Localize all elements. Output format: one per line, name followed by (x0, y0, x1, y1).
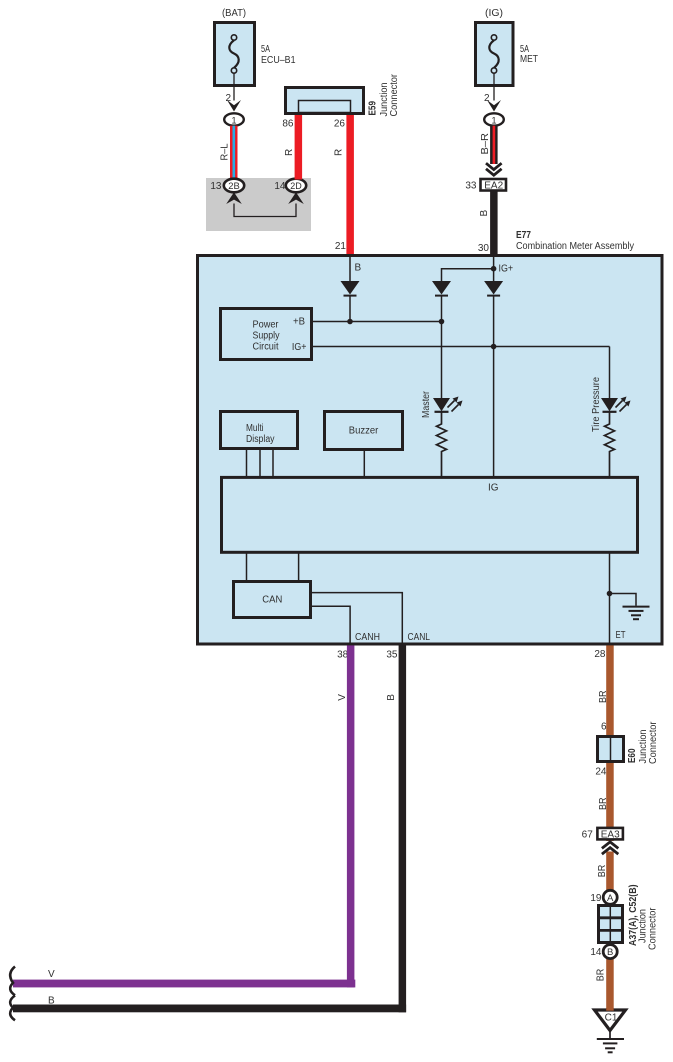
wire V (CANH, purple) (13, 645, 355, 987)
svg-text:CANH: CANH (355, 632, 380, 643)
svg-text:BR: BR (598, 798, 609, 811)
svg-text:CAN: CAN (262, 595, 282, 606)
svg-text:1: 1 (231, 115, 236, 125)
svg-text:+B: +B (293, 317, 305, 328)
svg-text:Combination Meter Assembly: Combination Meter Assembly (516, 241, 634, 252)
svg-text:E60: E60 (627, 748, 638, 763)
label E77 Combination Meter Assembly (516, 230, 634, 252)
diode D1 (B line) (341, 281, 360, 322)
svg-text:BR: BR (598, 691, 609, 704)
svg-text:CANL: CANL (408, 632, 431, 643)
svg-text:B: B (607, 947, 613, 958)
CAN block (234, 582, 311, 618)
connector 2B pin 13 (210, 179, 244, 193)
svg-text:Supply: Supply (253, 331, 280, 342)
ground symbol (597, 1031, 624, 1053)
svg-text:B: B (479, 210, 490, 217)
svg-text:V: V (48, 969, 55, 980)
svg-text:(IG): (IG) (485, 7, 503, 19)
multi display unit (221, 412, 298, 449)
connector 1 (BAT) (224, 113, 244, 125)
wire IG+ to power supply circuit (313, 344, 610, 350)
wire break symbol (V) (10, 967, 15, 996)
svg-text:Connector: Connector (648, 907, 659, 950)
wire CAN to CANH pin 38 (312, 606, 350, 644)
svg-text:14: 14 (274, 181, 286, 192)
svg-text:BR: BR (597, 865, 608, 878)
junction connector E59 (286, 88, 364, 114)
svg-text:E77: E77 (516, 230, 531, 241)
shield gray box (instrument panel wire) (206, 178, 311, 231)
wire CAN to CANL pin 35 (312, 593, 402, 644)
svg-text:2D: 2D (290, 181, 302, 191)
svg-text:C1: C1 (605, 1012, 618, 1023)
junction connector E60 (598, 737, 624, 762)
svg-text:V: V (337, 694, 348, 701)
svg-text:R–L: R–L (220, 143, 231, 160)
label E59 Junction Connector (368, 73, 401, 116)
wire from fuse to connector 1, pin 2 (484, 73, 501, 111)
node IG+ inside meter (491, 257, 513, 282)
svg-text:24: 24 (595, 767, 607, 778)
svg-text:Master: Master (421, 390, 432, 418)
double chevron into EA2 (485, 163, 504, 177)
wire from fuse to connector 1, pin 2 (225, 73, 241, 111)
wire break symbol (B) (10, 996, 15, 1021)
svg-text:IG+: IG+ (292, 342, 307, 353)
power supply circuit U1 (221, 309, 312, 360)
buzzer unit (325, 412, 403, 450)
svg-text:Buzzer: Buzzer (349, 426, 379, 437)
connector EA3 pin 67 (582, 828, 623, 841)
svg-text:67: 67 (582, 830, 594, 841)
resistor R1 (Master) (437, 412, 447, 476)
svg-text:EA2: EA2 (484, 180, 503, 191)
LED Master (421, 390, 462, 418)
wire B-R (black/red) (480, 126, 498, 166)
svg-text:E59: E59 (368, 101, 379, 116)
svg-text:6: 6 (601, 722, 607, 733)
svg-text:Multi: Multi (246, 423, 264, 434)
svg-text:30: 30 (478, 243, 490, 254)
internal ground (607, 591, 650, 620)
arrow up to 2B (226, 192, 242, 204)
diode D3 (484, 281, 503, 476)
svg-text:ET: ET (616, 630, 626, 641)
svg-text:28: 28 (594, 649, 606, 660)
svg-text:Connector: Connector (389, 73, 400, 116)
fuse 5A ECU-B1 (BAT) (215, 7, 296, 86)
ground point C1 (595, 1008, 626, 1031)
svg-text:33: 33 (465, 181, 477, 192)
svg-text:IG: IG (488, 483, 499, 494)
wire B from EA2 to pin 30 (478, 191, 498, 255)
label E60 Junction Connector (627, 721, 659, 764)
svg-text:R: R (334, 149, 345, 156)
svg-text:14: 14 (590, 947, 602, 958)
svg-text:ECU–B1: ECU–B1 (261, 55, 296, 66)
svg-text:B: B (48, 995, 55, 1006)
connector A pin 19 (590, 890, 617, 904)
combination meter assembly E77 box (198, 256, 663, 645)
wire +B (313, 319, 444, 325)
label A37(A), C52(B) Junction Connector (628, 885, 659, 951)
svg-text:A: A (607, 893, 614, 904)
svg-text:35: 35 (386, 650, 398, 661)
svg-text:21: 21 (335, 241, 347, 252)
svg-text:86: 86 (282, 119, 294, 130)
svg-text:Display: Display (246, 434, 275, 445)
wire buzzer to main block (363, 451, 365, 476)
arrow up to 2D (288, 192, 304, 204)
svg-text:B–R: B–R (480, 133, 491, 155)
wire ET from main block (609, 552, 611, 644)
junction connector A37(A), C52(B) (599, 906, 623, 943)
svg-text:13: 13 (210, 181, 222, 192)
svg-text:Connector: Connector (648, 721, 659, 764)
LED Tire Pressure (591, 377, 631, 432)
svg-text:B: B (355, 263, 362, 274)
wire B (CANL, black) (13, 645, 406, 1012)
svg-text:MET: MET (520, 54, 538, 65)
wire R from E59 pin 86 (282, 115, 302, 180)
diode D2 (432, 281, 451, 399)
wire R-L (red/blue) (230, 126, 238, 180)
svg-text:Circuit: Circuit (253, 342, 279, 353)
svg-text:BR: BR (595, 969, 606, 982)
svg-text:(BAT): (BAT) (222, 7, 246, 19)
wire IG+ down to tire pressure LED (609, 347, 611, 399)
wire R from E59 pin 26 to pin 21 (334, 115, 354, 255)
wires main block to CAN (247, 552, 299, 580)
fuse 5A MET (IG) (476, 7, 539, 86)
resistor R2 (Tire Pressure) (605, 412, 615, 476)
svg-text:EA3: EA3 (601, 829, 620, 840)
svg-text:5A: 5A (261, 44, 270, 55)
svg-text:19: 19 (590, 893, 602, 904)
svg-text:Tire Pressure: Tire Pressure (591, 377, 602, 432)
connector EA2 pin 33 (465, 179, 506, 192)
connector 1 (IG) (484, 113, 504, 125)
svg-text:IG+: IG+ (499, 264, 514, 275)
wire IG+ branch to diode D2 (442, 269, 494, 282)
main meter logic block (222, 477, 638, 552)
svg-text:1: 1 (491, 115, 496, 125)
wire BR (ET, brown) (598, 645, 614, 1009)
wires multi display to main block (247, 450, 274, 476)
wire link between arrows (234, 204, 296, 217)
double chevron up below EA3 (601, 841, 620, 854)
node B inside meter (350, 257, 362, 282)
connector 2D pin 14 (274, 179, 306, 193)
svg-text:Power: Power (253, 320, 280, 331)
connector B pin 14 (590, 945, 617, 959)
svg-text:R: R (284, 149, 295, 156)
svg-text:B: B (386, 694, 397, 701)
svg-text:26: 26 (334, 119, 346, 130)
svg-text:2B: 2B (228, 181, 240, 191)
